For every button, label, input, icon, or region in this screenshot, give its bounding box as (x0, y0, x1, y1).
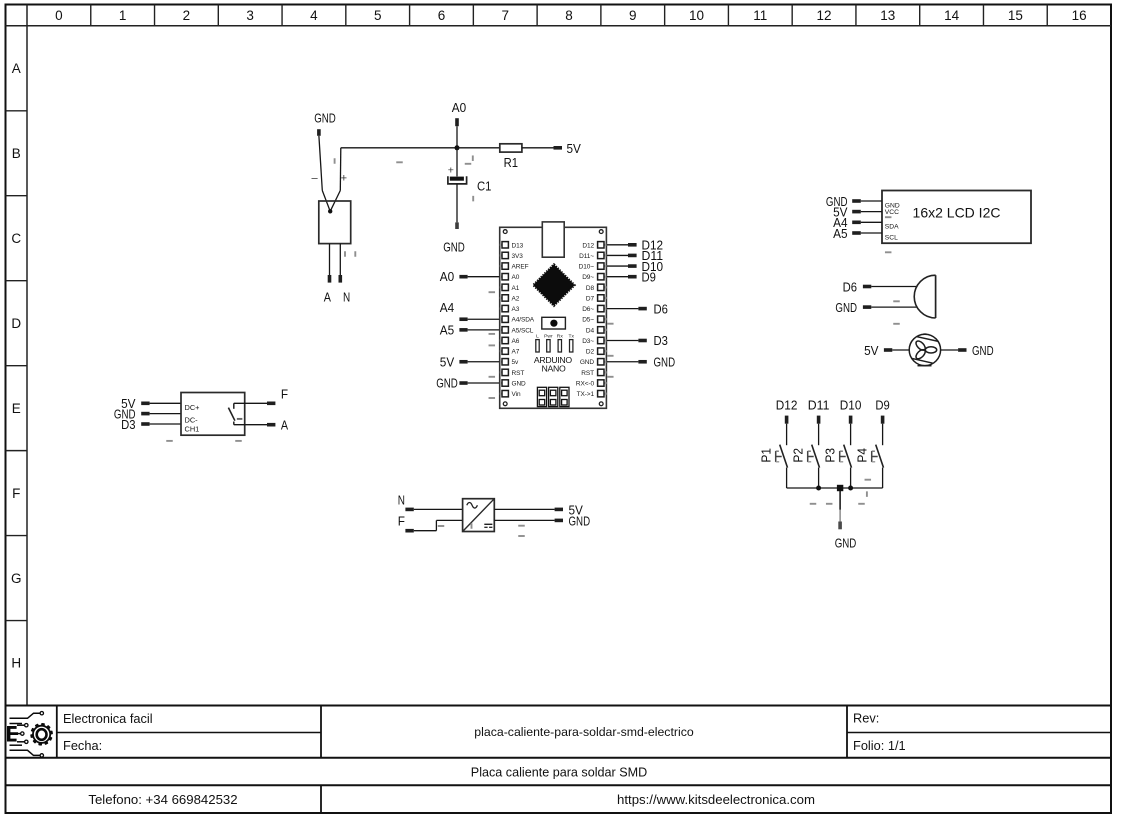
svg-text:A: A (12, 61, 21, 76)
svg-text:Rx: Rx (557, 333, 564, 339)
svg-text:+: + (448, 165, 454, 177)
svg-text:5V: 5V (440, 354, 455, 369)
svg-text:A4: A4 (440, 300, 454, 315)
resistor R1 (500, 144, 522, 170)
svg-text:3: 3 (246, 8, 254, 23)
svg-text:D5~: D5~ (582, 317, 594, 324)
svg-text:L: L (536, 333, 539, 339)
svg-text:GND: GND (654, 355, 676, 370)
svg-text:C: C (11, 231, 21, 246)
svg-text:P4: P4 (854, 448, 869, 463)
svg-text:F: F (281, 387, 288, 402)
svg-text:A2: A2 (512, 295, 520, 302)
wire (456, 126, 458, 148)
net label D12 (628, 238, 663, 253)
svg-text:GND: GND (972, 343, 994, 358)
net label A4 (833, 215, 861, 230)
svg-text:A3: A3 (512, 306, 520, 313)
svg-text:D13: D13 (512, 242, 524, 249)
svg-text:GND: GND (580, 359, 595, 366)
wire (850, 424, 852, 446)
svg-text:A6: A6 (512, 338, 520, 345)
svg-text:5v: 5v (512, 359, 520, 366)
wire (494, 519, 554, 521)
svg-text:B: B (12, 146, 21, 161)
svg-text:RST: RST (581, 370, 594, 377)
svg-text:9: 9 (629, 8, 637, 23)
svg-text:N: N (343, 290, 350, 305)
net label A0 (440, 269, 468, 284)
net label GND (835, 300, 871, 315)
wire (414, 520, 463, 530)
svg-text:6: 6 (438, 8, 446, 23)
net label GND (555, 513, 591, 528)
svg-text:Fecha:: Fecha: (63, 738, 102, 753)
power supply PS1 (463, 499, 495, 532)
svg-text:D7: D7 (586, 295, 595, 302)
wire (882, 424, 884, 446)
svg-text:GND: GND (569, 513, 591, 528)
svg-text:+: + (341, 172, 347, 184)
svg-text:D9: D9 (875, 398, 889, 413)
svg-text:SCL: SCL (885, 235, 898, 242)
svg-text:placa-caliente-para-soldar-smd: placa-caliente-para-soldar-smd-electrico (474, 725, 694, 739)
svg-text:D6: D6 (843, 279, 857, 294)
junction (848, 486, 853, 491)
svg-text:11: 11 (753, 8, 767, 23)
wire (786, 468, 788, 488)
svg-text:D3~: D3~ (582, 338, 594, 345)
svg-text:13: 13 (880, 8, 895, 23)
svg-text:14: 14 (944, 8, 960, 23)
svg-text:D10~: D10~ (579, 264, 595, 271)
svg-text:https://www.kitsdeelectronica.: https://www.kitsdeelectronica.com (617, 792, 815, 807)
svg-text:16x2 LCD I2C: 16x2 LCD I2C (913, 205, 1001, 221)
net label F (267, 387, 288, 406)
svg-text:D6: D6 (654, 301, 668, 316)
Arduino Nano U1 (500, 222, 607, 408)
net label F (398, 514, 414, 533)
svg-text:Telefono: +34 669842532: Telefono: +34 669842532 (88, 792, 237, 807)
net label D6 (843, 279, 872, 294)
svg-text:P3: P3 (822, 448, 837, 463)
wire (882, 468, 884, 488)
svg-text:P1: P1 (758, 448, 773, 463)
svg-text:RX<-0: RX<-0 (576, 381, 595, 388)
wire A0 net (341, 147, 457, 149)
svg-text:5V: 5V (864, 343, 879, 358)
heater plate (319, 201, 351, 244)
wire (456, 184, 458, 223)
wire (468, 382, 500, 384)
thermocouple TC1 (311, 172, 347, 213)
svg-text:0: 0 (55, 8, 63, 23)
wire (150, 423, 181, 425)
wire (839, 488, 841, 522)
net label GND (314, 111, 336, 136)
svg-text:10: 10 (689, 8, 704, 23)
net label A5 (833, 226, 861, 241)
junction (816, 486, 821, 491)
net label GND (436, 376, 467, 391)
push button P3 (822, 445, 851, 468)
net label D3 (121, 417, 149, 432)
wire (871, 286, 916, 288)
svg-text:TX->1: TX->1 (577, 391, 595, 398)
svg-text:D: D (11, 316, 21, 331)
net label 5V (554, 141, 582, 156)
wire (861, 221, 882, 223)
wire (606, 308, 638, 310)
svg-text:A1: A1 (512, 285, 520, 292)
fan M1 (909, 334, 940, 366)
wire (818, 424, 820, 446)
wire (786, 424, 788, 446)
svg-text:A4/SDA: A4/SDA (512, 317, 535, 324)
svg-text:A: A (324, 290, 331, 305)
buzzer BZ1 (914, 275, 935, 318)
wire (606, 361, 638, 363)
svg-text:E: E (12, 401, 21, 416)
wire (871, 306, 917, 308)
wire (850, 468, 852, 488)
wire (234, 424, 267, 426)
svg-text:D10: D10 (840, 398, 862, 413)
svg-text:Placa caliente para soldar SMD: Placa caliente para soldar SMD (471, 765, 647, 779)
svg-text:Folio: 1/1: Folio: 1/1 (853, 738, 906, 753)
net label GND (826, 194, 861, 209)
relay module K1 (181, 393, 245, 436)
svg-text:12: 12 (817, 8, 832, 23)
svg-text:7: 7 (501, 8, 509, 23)
svg-text:A7: A7 (512, 349, 520, 356)
LCD module 16x2 I2C (882, 191, 1031, 244)
svg-text:GND: GND (512, 381, 527, 388)
wire (319, 136, 322, 191)
wire (456, 148, 458, 177)
wire (861, 200, 882, 202)
svg-text:D2: D2 (586, 349, 595, 356)
svg-text:–: – (311, 172, 318, 184)
svg-text:D11: D11 (808, 398, 830, 413)
wire GND rail (787, 487, 883, 489)
svg-text:D11~: D11~ (579, 253, 594, 260)
wire (414, 508, 463, 510)
svg-text:A: A (281, 418, 288, 433)
junction GND tap (837, 485, 843, 491)
wire (892, 349, 909, 351)
wire (494, 508, 554, 510)
svg-text:AREF: AREF (512, 264, 529, 271)
svg-text:SDA: SDA (885, 223, 899, 230)
wire (329, 244, 331, 275)
net label D10 (628, 259, 663, 274)
svg-text:Electronica facil: Electronica facil (63, 711, 153, 726)
svg-text:C1: C1 (477, 179, 491, 194)
svg-text:P2: P2 (790, 448, 805, 463)
net label D11 (808, 398, 830, 424)
net label GND (114, 406, 150, 421)
svg-text:R1: R1 (504, 155, 518, 170)
svg-text:Pwr: Pwr (544, 333, 553, 339)
wire (861, 211, 882, 213)
net label GND (638, 355, 675, 370)
svg-text:A0: A0 (512, 274, 520, 281)
svg-text:A0: A0 (452, 100, 466, 115)
svg-text:15: 15 (1008, 8, 1023, 23)
svg-text:16: 16 (1072, 8, 1087, 23)
capacitor C1 (448, 165, 492, 194)
svg-text:VCC: VCC (885, 209, 899, 216)
svg-text:A5/SCL: A5/SCL (512, 327, 534, 334)
svg-text:RST: RST (512, 370, 525, 377)
svg-text:D9: D9 (642, 269, 656, 284)
svg-text:2: 2 (183, 8, 191, 23)
svg-text:GND: GND (835, 300, 857, 315)
wire (606, 244, 628, 246)
svg-text:F: F (398, 514, 405, 529)
net label 5V (833, 204, 861, 219)
wire (606, 254, 628, 256)
wire (606, 265, 628, 267)
wire (468, 361, 500, 363)
net label A5 (440, 322, 468, 337)
net label 5V (864, 343, 892, 358)
svg-text:D3: D3 (121, 417, 135, 432)
svg-text:D8: D8 (586, 285, 595, 292)
svg-text:H: H (11, 656, 21, 671)
svg-text:Rev:: Rev: (853, 711, 879, 726)
svg-text:DC+: DC+ (185, 403, 200, 412)
net label N (398, 492, 414, 511)
svg-text:NANO: NANO (542, 363, 566, 373)
svg-text:A0: A0 (440, 269, 454, 284)
wire (606, 339, 638, 341)
wire (522, 147, 554, 149)
pin N (339, 275, 351, 305)
wire (861, 232, 882, 234)
svg-text:GND: GND (835, 536, 857, 551)
svg-text:A5: A5 (440, 322, 454, 337)
net label 5V (121, 396, 149, 411)
net label 5V (440, 354, 468, 369)
wire (150, 402, 181, 404)
push button P2 (790, 445, 819, 468)
net label 5V (555, 502, 584, 517)
push button P4 (854, 445, 883, 468)
net label A4 (440, 300, 468, 321)
wire (468, 329, 500, 331)
wire (468, 276, 500, 278)
svg-text:4: 4 (310, 8, 318, 23)
svg-text:Vin: Vin (512, 391, 521, 398)
wire (941, 349, 959, 351)
wire (234, 402, 267, 404)
net label A0 (452, 100, 466, 126)
junction A0 (455, 145, 460, 150)
wire (468, 318, 500, 320)
net label D6 (638, 301, 668, 316)
net label D9 (875, 398, 889, 424)
svg-text:CH1: CH1 (185, 424, 200, 433)
svg-text:D12: D12 (776, 398, 798, 413)
svg-text:GND: GND (314, 111, 336, 126)
svg-text:GND: GND (443, 240, 465, 255)
svg-text:A5: A5 (833, 226, 847, 241)
net label D9 (628, 269, 656, 284)
net label D12 (776, 398, 798, 424)
net label A (267, 418, 288, 433)
svg-text:5: 5 (374, 8, 382, 23)
svg-text:GND: GND (436, 376, 458, 391)
svg-text:D6~: D6~ (582, 306, 594, 313)
svg-text:G: G (11, 571, 22, 586)
power symbol GND (835, 522, 857, 551)
wire (339, 244, 341, 275)
net label D3 (638, 333, 668, 348)
svg-text:D9~: D9~ (582, 274, 594, 281)
pin A (324, 275, 332, 305)
wire (606, 276, 628, 278)
net label D11 (628, 248, 663, 263)
svg-text:DC-: DC- (185, 415, 199, 424)
push button P1 (758, 445, 787, 468)
svg-text:3V3: 3V3 (512, 253, 524, 260)
svg-text:D3: D3 (654, 333, 668, 348)
svg-text:5V: 5V (567, 141, 582, 156)
wire (339, 148, 342, 191)
power symbol GND (443, 222, 465, 254)
svg-text:1: 1 (119, 8, 127, 23)
svg-text:Tx: Tx (568, 333, 574, 339)
svg-text:D4: D4 (586, 327, 595, 334)
svg-text:8: 8 (565, 8, 573, 23)
svg-text:F: F (12, 486, 20, 501)
wire (818, 468, 820, 488)
wire (150, 413, 181, 415)
svg-text:N: N (398, 492, 405, 507)
wire (457, 147, 500, 149)
net label D10 (840, 398, 862, 424)
net label GND (958, 343, 994, 358)
svg-text:D12: D12 (582, 242, 594, 249)
